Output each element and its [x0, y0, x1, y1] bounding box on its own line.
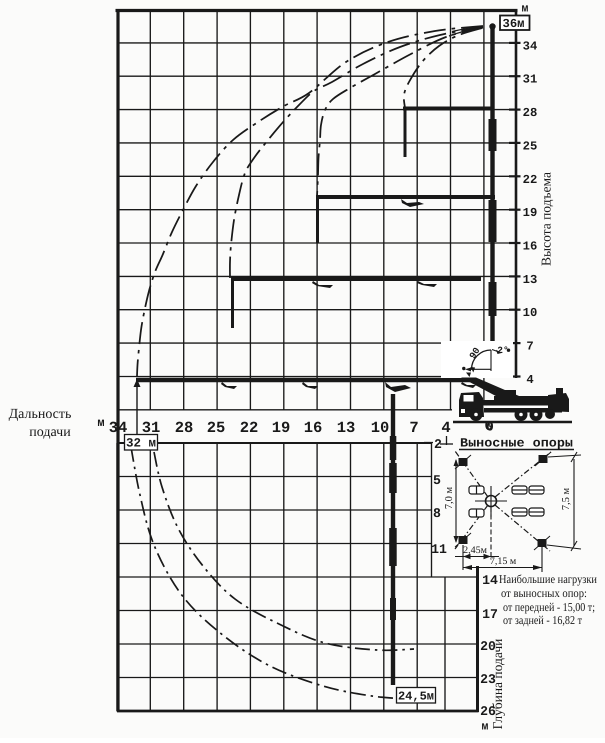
svg-text:2°: 2°	[497, 345, 508, 356]
svg-text:от выносных опор:: от выносных опор:	[501, 586, 587, 600]
outrigger pads	[455, 452, 551, 550]
label box 24.5m	[397, 688, 436, 704]
boom 28m left drop	[404, 108, 407, 157]
svg-text:16: 16	[523, 240, 538, 254]
lower envelope arc outer	[131, 447, 408, 699]
svg-text:Наибольшие нагрузки: Наибольшие нагрузки	[499, 572, 597, 586]
svg-text:Дальность: Дальность	[9, 407, 72, 422]
boom 20.5m joint hook	[401, 199, 424, 207]
svg-text:8: 8	[433, 506, 441, 521]
svg-text:13: 13	[337, 419, 356, 437]
lower grid top line	[117, 442, 432, 444]
svg-text:Выносные опоры: Выносные опоры	[460, 437, 573, 451]
svg-text:13: 13	[523, 273, 538, 287]
upper grid right border	[515, 10, 518, 378]
truck side view	[452, 388, 576, 435]
svg-text:22: 22	[523, 173, 538, 187]
svg-text:м: м	[482, 721, 489, 734]
boom mast blob	[489, 282, 497, 316]
svg-text:2,45м: 2,45м	[463, 545, 488, 556]
boom line 13m	[231, 277, 481, 281]
svg-text:16: 16	[304, 419, 323, 437]
lower grid bottom border	[117, 710, 479, 713]
svg-text:28: 28	[523, 106, 538, 120]
boom mast blob	[489, 119, 497, 151]
origin tick	[488, 419, 490, 424]
envelope arc to 13m elbow	[230, 27, 483, 278]
svg-text:7,0 м: 7,0 м	[444, 486, 455, 509]
boom line 28m	[403, 107, 494, 111]
depth axis ticks	[424, 436, 453, 445]
pivot angle fan 90-2deg	[441, 341, 513, 378]
svg-text:7: 7	[409, 419, 418, 437]
svg-text:0: 0	[486, 421, 494, 435]
lower grid thin lines	[117, 443, 477, 711]
height axis labels	[522, 3, 538, 388]
svg-text:19: 19	[272, 419, 291, 437]
boom mast blob	[489, 344, 497, 374]
svg-text:7,5 м: 7,5 м	[561, 487, 572, 510]
svg-text:19: 19	[523, 206, 538, 220]
label box 36m	[489, 16, 529, 32]
svg-text:5: 5	[433, 473, 441, 488]
boom mast vertical	[490, 27, 494, 377]
svg-text:м: м	[97, 416, 104, 430]
svg-text:25: 25	[207, 419, 226, 437]
reach axis labels	[97, 416, 493, 437]
boom 13m left drop	[231, 279, 234, 328]
upper grid top border	[116, 9, 518, 12]
svg-text:14: 14	[482, 573, 498, 588]
boom 13m joint hook 1	[312, 281, 333, 288]
envelope arc to 20.5m elbow	[317, 28, 483, 197]
label box 32m	[125, 435, 158, 451]
boom mast blob	[489, 200, 497, 242]
svg-text:от задней - 16,82 т: от задней - 16,82 т	[503, 613, 583, 627]
boom 4m joint hook 3	[385, 382, 411, 392]
lower boom blob	[389, 463, 397, 493]
svg-text:от передней - 15,00 т;: от передней - 15,00 т;	[503, 600, 595, 614]
boom line 4m	[136, 378, 471, 383]
lower boom blob	[390, 436, 397, 460]
outrigger title	[459, 437, 574, 451]
envelope arc to 28m elbow	[404, 28, 482, 108]
depth axis labels	[431, 437, 498, 734]
svg-text:36м: 36м	[503, 17, 525, 31]
svg-text:Глубина подачи: Глубина подачи	[490, 639, 505, 730]
upper grid thin lines	[117, 10, 517, 410]
svg-text:34: 34	[523, 39, 538, 53]
svg-text:подачи: подачи	[29, 425, 71, 440]
boom diagonal to truck	[461, 378, 526, 405]
lower envelope arc inner	[154, 452, 414, 650]
svg-text:4: 4	[441, 419, 450, 437]
depth axis line	[476, 566, 479, 712]
outrigger dim lines 7.0 and 7.5	[454, 452, 582, 551]
outrigger center and diagonals	[455, 451, 551, 551]
envelope arc to 4m elbow	[137, 26, 483, 376]
boom 20.5m left drop	[316, 197, 319, 243]
boom 4m joint hook 1	[221, 382, 237, 389]
svg-text:10: 10	[371, 419, 390, 437]
svg-text:24,5м: 24,5м	[398, 690, 434, 704]
svg-text:32 м: 32 м	[126, 437, 156, 451]
boom 4m joint hook 2	[302, 382, 318, 389]
svg-text:4: 4	[526, 373, 533, 387]
svg-text:10: 10	[523, 306, 538, 320]
lower boom vertical	[391, 394, 395, 685]
truck wheels top view	[469, 486, 544, 517]
svg-text:7: 7	[526, 340, 533, 354]
lower boom blob	[390, 598, 396, 620]
arc convergence strokes	[449, 27, 483, 37]
boom 4m joint hook 4	[461, 382, 476, 388]
pointer line 32m	[136, 381, 138, 434]
svg-text:м: м	[522, 3, 529, 16]
svg-text:11: 11	[431, 542, 447, 557]
svg-text:Высота подъема: Высота подъема	[539, 172, 554, 266]
height axis ticks	[509, 43, 521, 377]
lower boom blob	[389, 528, 397, 566]
svg-text:31: 31	[523, 73, 538, 87]
boom 13m joint hook 2	[417, 281, 437, 287]
outrigger loads text	[499, 572, 597, 627]
outrigger bottom dims	[455, 507, 542, 572]
svg-text:28: 28	[175, 419, 194, 437]
svg-text:25: 25	[523, 139, 538, 153]
upper+lower grid left border	[116, 9, 119, 712]
svg-text:17: 17	[482, 607, 498, 622]
boom line 20.5m	[316, 195, 495, 199]
svg-text:7,15 м: 7,15 м	[490, 556, 517, 567]
svg-text:22: 22	[240, 419, 259, 437]
